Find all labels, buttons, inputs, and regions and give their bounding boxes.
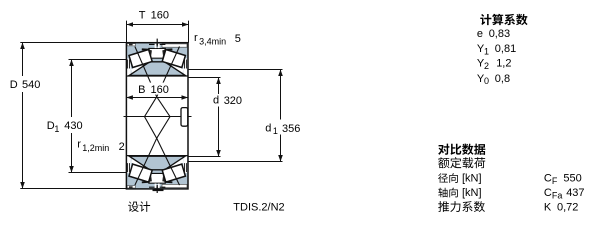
svg-text:T: T: [139, 9, 146, 21]
pressure-centre rhombus: [145, 97, 171, 139]
row Y1 0,81: [477, 43, 516, 56]
svg-text:[kN]: [kN]: [462, 187, 482, 199]
top half bearing section: [126, 39, 188, 76]
svg-text:160: 160: [151, 9, 169, 21]
dimension B 160: [126, 83, 188, 100]
outer ring joint ridge at bottom OD: [153, 189, 164, 191]
axis centerline: [124, 116, 192, 118]
svg-text:0,83: 0,83: [489, 28, 510, 40]
svg-text:[kN]: [kN]: [462, 173, 482, 185]
cage rail right: [165, 48, 173, 50]
svg-text:C: C: [544, 187, 552, 199]
row axial [kN]: [438, 187, 481, 199]
svg-text:540: 540: [22, 79, 40, 91]
inner ring front-face relief right: [183, 59, 187, 76]
left tapered roller: [129, 50, 152, 68]
contact line bottom-left row: [135, 138, 157, 185]
svg-text:TDIS.2/N2: TDIS.2/N2: [233, 202, 284, 214]
OD lubrication groove: [149, 43, 165, 45]
inner ring centre dome: [129, 156, 185, 170]
svg-text:C: C: [544, 173, 552, 185]
contact line top-right row: [157, 47, 180, 97]
gap under right roller: [164, 157, 184, 170]
svg-text:1,2min: 1,2min: [82, 143, 109, 153]
outer+inner ring mass (blue): [126, 156, 188, 189]
outer+inner ring mass (blue): [126, 43, 188, 76]
svg-text:550: 550: [563, 173, 581, 185]
dimension d1 356: [188, 70, 300, 162]
svg-text:1: 1: [54, 124, 59, 134]
cage rail left: [142, 181, 150, 183]
svg-text:356: 356: [282, 123, 300, 135]
svg-text:320: 320: [224, 95, 242, 107]
right tapered roller: [162, 164, 185, 182]
row Y0 0,8: [477, 73, 510, 86]
svg-text:r: r: [77, 138, 81, 150]
cage pocket corner mark left: [149, 176, 152, 182]
dimension d 320: [188, 78, 242, 157]
svg-text:0,72: 0,72: [557, 202, 578, 214]
svg-text:160: 160: [151, 84, 169, 96]
bottom half bearing section (mirror): [126, 156, 188, 193]
svg-text:r: r: [194, 32, 198, 44]
gap under right roller: [164, 62, 184, 75]
cage strip near OD right: [162, 44, 187, 47]
svg-text:0,81: 0,81: [495, 43, 516, 55]
row radial [kN]: [438, 173, 481, 185]
cage pocket corner mark right: [162, 176, 165, 182]
cage pocket between rows: [149, 173, 165, 183]
row thrust factor (Chinese): [438, 201, 449, 212]
left tapered roller: [129, 164, 152, 182]
svg-text:d: d: [265, 122, 271, 134]
svg-text:F: F: [552, 176, 558, 186]
dimension D1 430: [47, 60, 127, 173]
svg-text:5: 5: [235, 33, 241, 45]
locating slot N2: [181, 108, 188, 127]
cage pocket corner mark left: [149, 50, 152, 56]
header comparison data (Chinese, bold): [438, 144, 449, 155]
svg-text:1: 1: [484, 47, 489, 57]
value K 0,72: [544, 202, 579, 214]
inner ring front-face relief left: [127, 156, 131, 173]
inner ring centre dome: [129, 62, 185, 76]
svg-text:Fa: Fa: [552, 191, 563, 201]
svg-text:3,4min: 3,4min: [199, 37, 226, 47]
svg-text:K: K: [544, 202, 552, 214]
inner ring front-face relief right: [183, 156, 187, 173]
svg-text:0: 0: [484, 76, 489, 86]
bore surface line: [126, 75, 188, 77]
dimension D 540: [10, 43, 127, 189]
svg-text:430: 430: [64, 120, 82, 132]
cage pocket corner mark right: [162, 50, 165, 56]
dimension T 160: [127, 9, 189, 42]
cage strip near OD left: [127, 186, 135, 188]
cage rail right: [165, 181, 173, 183]
cage strip near OD right: [162, 184, 187, 187]
svg-text:1,2: 1,2: [496, 58, 511, 70]
value CF 550: [544, 173, 582, 187]
svg-text:2: 2: [119, 141, 125, 153]
svg-text:437: 437: [566, 187, 584, 199]
label design (Chinese): [128, 201, 150, 212]
svg-text:D: D: [10, 79, 18, 91]
cage strip near OD left: [127, 44, 135, 46]
gap under left roller: [131, 62, 151, 75]
svg-text:B: B: [138, 84, 145, 96]
header calculation factors (Chinese, bold): [480, 14, 491, 25]
value CFa 437: [544, 187, 585, 201]
svg-text:d: d: [213, 95, 219, 107]
OD lubrication groove: [149, 186, 165, 188]
gap under left roller: [131, 157, 151, 170]
bore surface line: [126, 155, 188, 157]
bearing outline: [126, 43, 188, 189]
svg-text:e: e: [477, 28, 483, 40]
contact line bottom-right row: [157, 138, 180, 185]
svg-text:1: 1: [273, 126, 278, 136]
svg-text:0,8: 0,8: [495, 73, 510, 85]
inner ring front-face relief left: [127, 59, 131, 76]
cage pocket between rows: [149, 48, 165, 58]
row e 0,83: [477, 28, 510, 40]
row Y2 1,2: [477, 58, 512, 71]
contact line top-left row: [135, 47, 157, 97]
symmetry tick at OD: [156, 39, 158, 47]
symmetry tick at OD: [156, 185, 158, 193]
svg-text:2: 2: [484, 61, 489, 71]
right tapered roller: [162, 50, 185, 68]
lubrication hole notches: [155, 44, 157, 48]
lubrication hole notches: [155, 184, 157, 188]
cage rail left: [142, 48, 150, 50]
row rated loads (Chinese): [438, 157, 449, 168]
label r3,4min 5: [194, 32, 241, 47]
label r1,2min 2: [77, 138, 125, 153]
